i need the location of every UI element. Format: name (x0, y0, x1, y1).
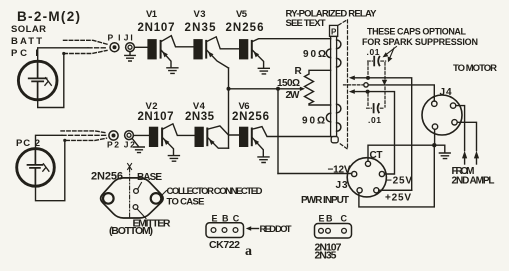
solar cell PC1 (18, 61, 57, 100)
pinout CK722 body (206, 223, 244, 238)
wire J4 pin3 to FROM-2ND-AMPL right (457, 122, 476, 150)
svg-text:2N256: 2N256 (91, 171, 123, 183)
svg-text:2N35: 2N35 (185, 111, 215, 123)
transistor V2 (149, 124, 195, 156)
relay coil lower 90ohm (326, 104, 341, 131)
ground at junction (434, 145, 450, 158)
node upper contact (366, 76, 370, 80)
svg-text:2N107: 2N107 (138, 111, 174, 123)
case hole right (151, 193, 162, 204)
svg-text:(BOTTOM): (BOTTOM) (109, 225, 153, 237)
wire tap down to -12V rail (277, 89, 279, 174)
wire V3 emitter / V6 base vertical (228, 68, 230, 148)
case centerline dash-dot (129, 168, 131, 218)
svg-text:C: C (233, 214, 240, 224)
wire +25V pin stub (379, 189, 412, 191)
ground of V1 (167, 68, 178, 74)
svg-text:V3: V3 (194, 9, 206, 20)
relay reed bar (331, 36, 337, 136)
plug P2 (109, 131, 118, 140)
svg-text:C: C (341, 214, 348, 224)
J3 POWER PLUG (301, 150, 412, 206)
svg-text:RED DOT: RED DOT (260, 224, 292, 235)
svg-text:a: a (245, 244, 252, 259)
svg-text:V5: V5 (236, 9, 248, 20)
relay bar bottom tip (331, 137, 338, 143)
node PC2 shield junction (63, 139, 66, 142)
wire PC1 center conductor dashed to P1 (88, 47, 108, 49)
arrow from 2nd ampl right (474, 151, 479, 159)
svg-text:COLLECTOR CONNECTED: COLLECTOR CONNECTED (167, 186, 263, 197)
svg-text:2N256: 2N256 (232, 111, 269, 123)
capacitor C upper .01 (373, 57, 375, 66)
emitter pin (133, 205, 138, 210)
wire J4 pin2 to FROM-2ND-AMPL left (456, 106, 465, 151)
pinout 2N107 body (315, 224, 352, 239)
wire lower contact to -25V pin (353, 92, 395, 174)
svg-text:2ND AMPL: 2ND AMPL (452, 176, 495, 187)
contact arrow lower (349, 89, 355, 94)
plug P1 (110, 43, 119, 52)
svg-text:R: R (295, 66, 303, 77)
ground of J2 (132, 139, 144, 153)
svg-text:−25V: −25V (386, 176, 412, 187)
svg-text:J3: J3 (336, 180, 348, 191)
svg-text:.01: .01 (367, 47, 380, 57)
2N107 2N35 PINOUT (315, 214, 348, 262)
case top mark (128, 164, 132, 170)
CK722 PINOUT (209, 214, 292, 260)
wire PC1 top to cable (38, 48, 88, 62)
svg-text:2N256: 2N256 (226, 22, 264, 34)
svg-text:P I: P I (108, 33, 121, 43)
ground of V2 (168, 156, 179, 162)
svg-text:FOR SPARK SUPPRESSION: FOR SPARK SUPPRESSION (362, 37, 478, 47)
arrow red dot (250, 228, 259, 230)
wire -12V rail (278, 173, 352, 175)
node lower contact (366, 90, 370, 94)
svg-text:TO CASE: TO CASE (167, 197, 205, 208)
svg-text:P: P (331, 28, 337, 37)
svg-text:B: B (326, 214, 333, 224)
node main junction (432, 143, 436, 147)
LABELS top transistor row (138, 9, 264, 34)
svg-text:PWR INPUT: PWR INPUT (301, 195, 349, 206)
wire armature dashes from reed (344, 84, 364, 86)
arrow caps pointer 2 (390, 48, 395, 59)
connector J3 (347, 158, 386, 197)
wire PC2 center conductor dashed to P2 (62, 134, 107, 136)
node cable-shield junction (62, 52, 65, 55)
ground of V5 (258, 68, 269, 74)
connector J4 (422, 95, 462, 135)
case hole left (103, 193, 114, 204)
transistor V1 (147, 36, 193, 68)
relay dashed enclosure (339, 20, 348, 149)
transistor case TO-3 outline (101, 178, 163, 218)
TITLE-BLOCK (11, 9, 80, 59)
svg-text:.01: .01 (368, 115, 381, 125)
wire J2 to V2 base (133, 134, 149, 136)
wire PC1 bottom loop (38, 55, 64, 108)
armature pivot circle (364, 83, 368, 87)
collector pointer (162, 191, 167, 196)
svg-text:CK722: CK722 (209, 239, 240, 251)
capacitor C lower .01 (373, 104, 375, 112)
ground of J1 (125, 52, 135, 61)
wire cable upper dashed (64, 40, 108, 44)
relay P armature box (330, 25, 338, 36)
svg-text:2N107: 2N107 (138, 22, 175, 34)
base pin (134, 189, 139, 194)
svg-text:2N35: 2N35 (185, 22, 217, 34)
node emitter rail (227, 87, 231, 91)
wire J1 to V1 base (134, 46, 147, 48)
node tap junction (276, 87, 280, 91)
wire cable lower dashed PC2 (66, 138, 107, 140)
svg-text:TO MOTOR: TO MOTOR (453, 63, 497, 74)
svg-text:E: E (212, 214, 218, 224)
J4 MOTOR JACK (440, 63, 498, 98)
svg-text:SEE TEXT: SEE TEXT (286, 18, 326, 29)
resistor R 150ohm (277, 66, 303, 101)
contact arrow upper (349, 76, 355, 81)
CAPS (362, 27, 478, 126)
2N256 PACKAGE DRAWING (91, 171, 263, 238)
transistor V6 (239, 127, 331, 157)
wire CT line (368, 145, 434, 161)
transistor V3 (193, 37, 239, 68)
arrow caps pointer 1 (386, 47, 397, 56)
wire upper contact to +25V pin (353, 78, 412, 191)
svg-text:90Ω: 90Ω (302, 116, 325, 127)
arrow cap pointer on armature (382, 80, 387, 86)
arrow from 2nd ampl left (462, 151, 467, 159)
solar cell PC2 (16, 138, 40, 149)
svg-text:THESE CAPS OPTIONAL: THESE CAPS OPTIONAL (367, 27, 467, 37)
svg-text:+25V: +25V (385, 193, 411, 204)
svg-text:2N35: 2N35 (315, 250, 337, 262)
svg-text:V1: V1 (146, 9, 158, 20)
transistor V4 (195, 126, 240, 148)
wire cable upper dashed PC2 (61, 131, 107, 133)
jack J1 (126, 43, 135, 52)
relay coil upper 90ohm (326, 40, 341, 67)
wire junction loop to J3 common pin (359, 145, 434, 207)
RELAY (286, 9, 378, 29)
svg-text:JI: JI (124, 33, 133, 43)
wire armature to J4 pin1 (368, 85, 434, 101)
wire PC2 top to cable (36, 135, 63, 149)
jack J2 (125, 131, 134, 140)
wire PC2 bottom loop (36, 141, 65, 200)
svg-text:150Ω: 150Ω (277, 78, 300, 89)
wire emitter rail with tap arrow into R (229, 88, 300, 90)
wire cable lower dashed (64, 50, 107, 53)
svg-text:B: B (222, 214, 229, 224)
svg-text:B-2-M(2): B-2-M(2) (17, 9, 80, 24)
svg-text:E: E (319, 214, 325, 224)
svg-text:90Ω: 90Ω (303, 49, 326, 60)
svg-text:2W: 2W (286, 90, 301, 101)
ground of V6 (258, 157, 269, 163)
transistor V5 (239, 39, 331, 68)
svg-text:SOLAR: SOLAR (11, 24, 46, 35)
wire junction to J4 pin4 (434, 129, 436, 145)
LABELS bottom transistor row (138, 101, 270, 123)
